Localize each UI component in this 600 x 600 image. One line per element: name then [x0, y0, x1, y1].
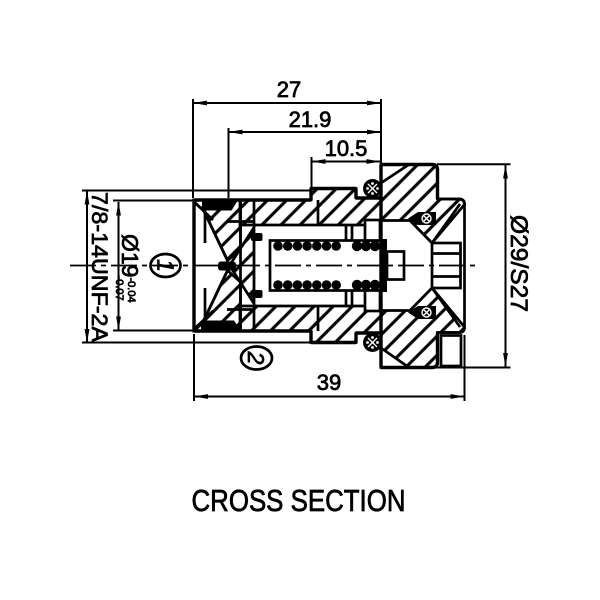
svg-text:Ø19-0.04-0.07: Ø19-0.04-0.07	[113, 234, 143, 303]
svg-text:1: 1	[153, 259, 179, 272]
svg-text:Ø29/S27: Ø29/S27	[505, 215, 532, 312]
svg-text:39: 39	[317, 370, 341, 395]
svg-text:10.5: 10.5	[325, 136, 368, 161]
svg-text:7/8-14UNF-2A: 7/8-14UNF-2A	[87, 192, 112, 342]
svg-text:2: 2	[243, 351, 269, 365]
svg-text:21.9: 21.9	[289, 107, 332, 132]
svg-text:27: 27	[277, 77, 301, 102]
svg-text:CROSS SECTION: CROSS SECTION	[192, 483, 406, 518]
